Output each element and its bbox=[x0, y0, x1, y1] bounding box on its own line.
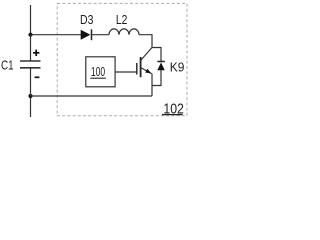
svg-text:L2: L2 bbox=[116, 13, 128, 27]
diode: K9 antiparallel bbox=[157, 62, 165, 71]
svg-text:100: 100 bbox=[91, 65, 105, 79]
svg-text:K9: K9 bbox=[170, 60, 185, 75]
svg-text:D3: D3 bbox=[80, 13, 93, 27]
wire: input bottom stub bbox=[30, 96, 32, 117]
node: top-left junction bbox=[28, 33, 32, 37]
label: plus polarity bbox=[33, 50, 39, 56]
svg-text:C1: C1 bbox=[1, 59, 14, 73]
label: 100 bbox=[90, 65, 106, 79]
capacitor C1 bbox=[20, 61, 41, 68]
wire: emitter to bottom rail bbox=[151, 74, 153, 97]
wire: top rail to D3 bbox=[31, 34, 82, 36]
wire: box 100 to gate bbox=[115, 71, 137, 73]
wire: D3 to L2 bbox=[92, 34, 110, 36]
label: 102 bbox=[162, 100, 184, 117]
wire: C1 bottom lead bbox=[30, 68, 32, 96]
wire: bottom rail bbox=[31, 95, 153, 97]
wire: corner to K9 diode top bbox=[152, 48, 161, 62]
wire: C1 top lead bbox=[30, 35, 32, 61]
inductor L2 bbox=[109, 29, 139, 35]
label: minus polarity bbox=[35, 76, 40, 78]
control box 100 bbox=[86, 57, 115, 87]
wire: input top stub bbox=[30, 5, 32, 35]
wire: L2 to collector corner bbox=[139, 35, 152, 48]
diode D3 bbox=[81, 29, 92, 40]
wire: K9 diode bottom connector bbox=[152, 70, 161, 86]
dashed enclosure boundary 102 bbox=[57, 3, 187, 115]
transistor K9 (IGBT) bbox=[137, 48, 152, 78]
node: bottom-left junction bbox=[28, 94, 32, 98]
